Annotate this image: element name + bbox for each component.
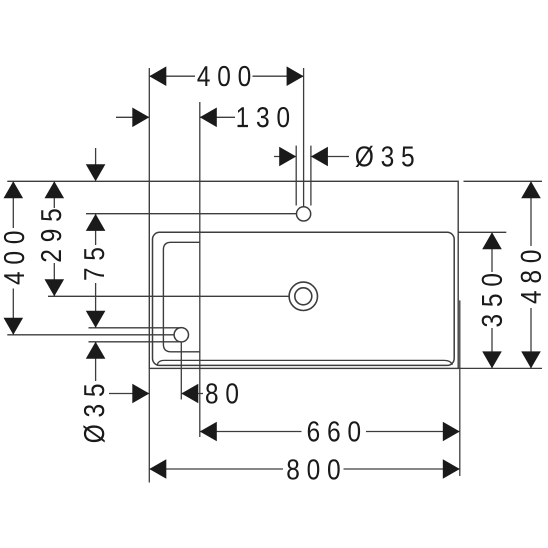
arrow diam35 left outside above <box>86 311 106 328</box>
vertical extension: tap hole left tangent <box>295 146 297 206</box>
label 800 bottom <box>287 459 339 479</box>
vertical extension: basin left above <box>148 68 150 181</box>
horizontal extension: left hole bottom tangent <box>89 341 182 343</box>
vertical extension: tap hole right tangent <box>310 146 312 206</box>
horizontal extension: basin top to left dims <box>7 180 149 182</box>
dim line 80 bottom <box>109 393 149 395</box>
label diam35 top <box>356 146 414 167</box>
horizontal extension: tap hole center to left <box>86 213 297 215</box>
horizontal extension: drain center to left <box>48 295 289 297</box>
vertical extension: basin right below <box>459 300 461 476</box>
arrow diam35 top right outside <box>311 147 328 167</box>
drain outer <box>289 282 317 310</box>
dim line 75 / diam35 left stems <box>95 148 97 165</box>
dim line 800 bottom <box>149 468 283 470</box>
dim line 400 left <box>12 181 14 228</box>
arrow diam35 left outside below <box>86 342 106 359</box>
label 75 left <box>84 248 104 280</box>
vertical extension: left hole center below <box>180 342 182 400</box>
dim line 130 top <box>116 116 149 118</box>
shelf ledge <box>163 242 199 351</box>
arrow 75 outside above <box>86 164 106 181</box>
vertical extension: basin left below <box>148 368 150 482</box>
arrow diam35 top left outside <box>279 147 296 167</box>
dim line diam35 top <box>274 156 296 158</box>
arrow 130 right outside <box>200 108 217 128</box>
horizontal extension: left hole top tangent <box>89 327 182 329</box>
arrow 660 right <box>443 422 460 442</box>
arrow 350 top <box>482 232 502 249</box>
horizontal extension: basin top to right dims <box>464 180 543 182</box>
label 350 right <box>482 274 502 327</box>
arrow 80 left outside <box>132 384 149 404</box>
arrow 660 left <box>200 422 217 442</box>
arrow 400 top left <box>149 66 166 86</box>
vertical extension: shelf edge <box>199 102 201 437</box>
dim line 350 right <box>491 232 493 272</box>
arrow 400 left top <box>4 181 24 198</box>
drain inner <box>295 288 312 305</box>
arrow 295 bottom <box>45 279 65 296</box>
label 400 left <box>4 232 24 285</box>
arrow 480 bottom <box>521 351 541 368</box>
arrow 295 top <box>45 181 65 198</box>
arrow 800 left <box>149 459 166 479</box>
label 80 bottom <box>206 383 238 403</box>
arrow 480 top <box>521 181 541 198</box>
arrow 75 outside below <box>86 214 106 231</box>
arrow 80 right outside <box>181 384 198 404</box>
label 660 bottom <box>308 421 360 441</box>
dim line 480 right <box>530 181 532 246</box>
label 295 left <box>41 209 61 261</box>
dim line 295 left <box>53 181 55 208</box>
horizontal extension: basin bottom to right dims <box>458 367 542 369</box>
arrow 800 right <box>443 459 460 479</box>
horizontal extension: bowl top to right dim <box>459 231 507 233</box>
arrow 400 top right <box>287 66 304 86</box>
arrow 350 bottom <box>482 351 502 368</box>
left hole <box>174 328 188 342</box>
label 130 top <box>238 107 290 127</box>
vertical extension: tap hole center <box>303 68 305 207</box>
arrow 400 left bottom <box>4 318 24 335</box>
label diam35 left <box>83 385 104 443</box>
arrow 130 left outside <box>132 108 149 128</box>
horizontal extension: left hole center <box>7 334 174 336</box>
label 400 top <box>197 66 250 86</box>
basin outline <box>149 181 458 368</box>
dim line 660 bottom <box>200 431 302 433</box>
dim line 400 top <box>149 75 195 77</box>
label 480 right <box>521 251 541 304</box>
tap hole <box>297 207 311 221</box>
bowl outline <box>153 232 455 365</box>
bowl inner front line <box>157 360 452 364</box>
